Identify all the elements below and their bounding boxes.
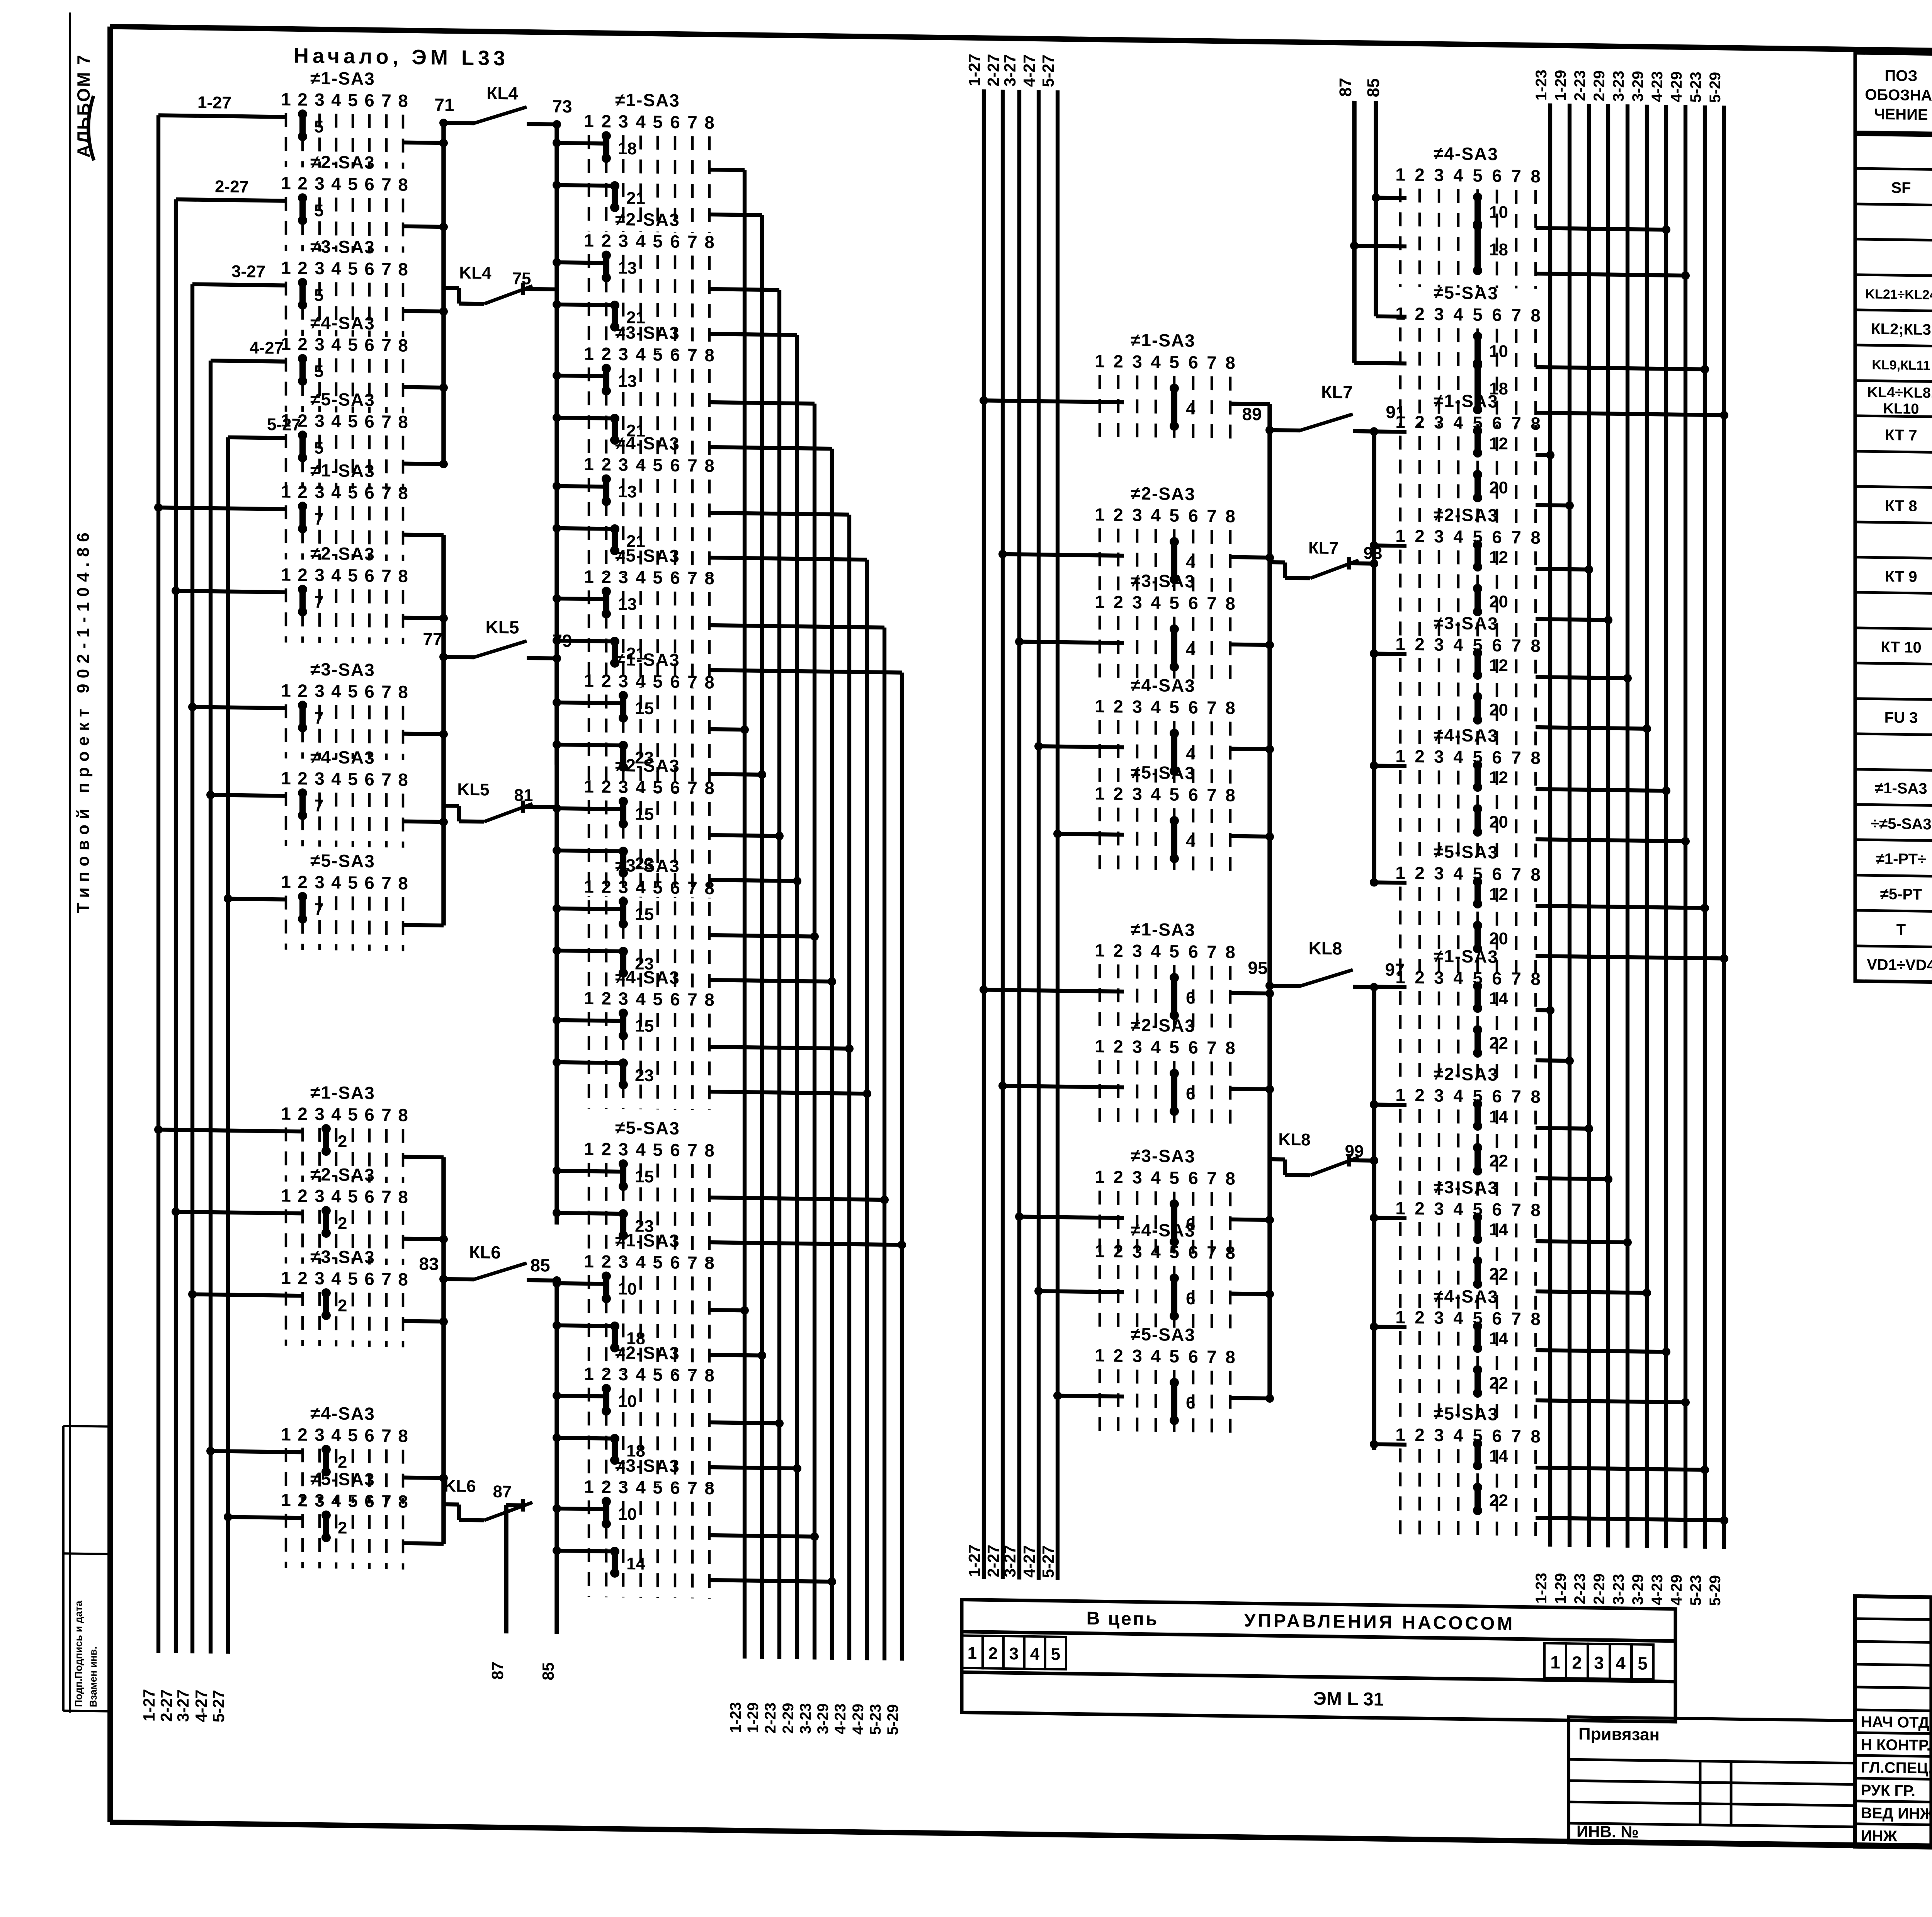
svg-text:3: 3 [618,1364,628,1384]
svg-text:4: 4 [636,231,646,251]
svg-text:3: 3 [315,681,325,701]
wire net 5-23 (left fan) [883,628,886,1660]
svg-text:8: 8 [398,1425,408,1446]
svg-text:8: 8 [1531,413,1541,434]
svg-text:1: 1 [281,1424,291,1444]
svg-text:FU 3: FU 3 [1884,709,1918,726]
svg-text:3: 3 [1434,747,1444,767]
svg-text:6: 6 [364,335,374,355]
svg-text:≠5-SA3: ≠5-SA3 [1434,842,1498,862]
svg-text:KL8: KL8 [1278,1130,1310,1149]
svg-text:3: 3 [1434,304,1444,324]
selector switch ≠5-SA3 [1395,282,1541,428]
svg-text:8: 8 [704,112,714,133]
svg-text:4: 4 [331,1425,341,1445]
svg-text:2: 2 [1415,412,1425,432]
svg-text:7: 7 [1511,1086,1521,1106]
svg-text:5: 5 [348,90,358,110]
svg-text:4-27: 4-27 [1020,54,1038,87]
svg-text:5: 5 [1169,1346,1179,1366]
svg-text:3: 3 [315,334,325,354]
svg-text:1: 1 [1095,1036,1105,1056]
selector switch ≠2-SA3 [1395,504,1541,640]
svg-text:8: 8 [704,1478,714,1498]
svg-text:≠1-SA3: ≠1-SA3 [615,1230,680,1251]
wire 85 vertical (top) [1374,101,1378,316]
svg-text:4: 4 [1151,352,1161,372]
svg-text:1: 1 [584,1476,594,1497]
svg-text:6: 6 [1492,747,1502,767]
wire net 4-23 (right fan) [1664,105,1668,1548]
svg-text:4: 4 [1453,747,1463,767]
svg-text:3: 3 [1132,505,1142,525]
svg-text:≠2-SA3: ≠2-SA3 [615,209,680,230]
svg-text:1: 1 [584,230,594,250]
svg-text:1: 1 [1095,940,1105,960]
svg-text:5: 5 [348,1186,358,1206]
svg-text:Взамен инв.: Взамен инв. [87,1647,99,1708]
svg-text:1: 1 [1395,967,1405,987]
svg-text:≠3-SA3: ≠3-SA3 [1131,570,1196,591]
wire feeder 1-27 middle [982,89,986,1579]
svg-text:6: 6 [1492,527,1502,547]
svg-text:7: 7 [1511,635,1521,655]
svg-text:8: 8 [398,412,408,432]
svg-text:1: 1 [1095,783,1105,803]
svg-text:12: 12 [1489,656,1508,675]
bus 91 vertical [1372,432,1376,884]
svg-text:6: 6 [670,1478,680,1498]
svg-text:2: 2 [601,670,611,691]
svg-text:4: 4 [1151,784,1161,804]
svg-text:1: 1 [584,454,594,474]
svg-text:≠2-SA3: ≠2-SA3 [615,755,680,776]
svg-text:KL10: KL10 [1883,401,1919,417]
selector switch ≠3-SA3 [281,659,408,760]
svg-text:7: 7 [1207,1347,1217,1367]
svg-text:1-27: 1-27 [965,54,983,87]
selector switch ≠3-SA3 [584,1455,714,1599]
selector switch ≠5-SA3 [1095,762,1235,881]
svg-text:5: 5 [314,439,323,458]
svg-text:7: 7 [687,878,697,898]
svg-text:≠4-SA3: ≠4-SA3 [310,313,375,333]
svg-text:3-27: 3-27 [174,1689,192,1722]
svg-text:1: 1 [281,481,291,502]
svg-text:3: 3 [1009,1644,1019,1663]
svg-text:≠1-SA3: ≠1-SA3 [1131,330,1196,350]
svg-text:87: 87 [488,1662,507,1680]
svg-text:≠1-SA3: ≠1-SA3 [310,460,375,481]
svg-text:5: 5 [1169,505,1179,526]
svg-text:2: 2 [1113,941,1123,961]
svg-text:8: 8 [1225,698,1235,718]
svg-text:3: 3 [618,567,628,587]
svg-text:7: 7 [1207,1038,1217,1058]
svg-text:6: 6 [1188,1037,1198,1057]
wire feeder 1-27 [156,115,160,1653]
svg-text:3: 3 [618,1477,628,1497]
svg-text:22: 22 [1489,1373,1508,1393]
svg-text:7: 7 [381,483,391,503]
svg-text:КL7: КL7 [1308,538,1338,558]
svg-text:7: 7 [314,796,323,815]
svg-text:3: 3 [618,777,628,797]
svg-text:2: 2 [298,258,308,278]
svg-text:1: 1 [584,1364,594,1384]
svg-text:5-23: 5-23 [1687,71,1704,103]
svg-text:КL2;КL3: КL2;КL3 [1871,320,1931,338]
svg-text:≠1-SA3: ≠1-SA3 [1875,780,1927,798]
wire 87 vertical (top) [1352,101,1357,363]
svg-text:4: 4 [1453,863,1463,883]
svg-text:5: 5 [653,671,663,691]
svg-text:2: 2 [298,680,308,701]
svg-text:≠1-РТ÷: ≠1-РТ÷ [1876,850,1926,868]
svg-text:3: 3 [1594,1653,1604,1673]
svg-text:2: 2 [1415,634,1425,654]
relay contact KL7.2 node 93 [1270,556,1374,579]
svg-text:4: 4 [636,567,646,587]
svg-text:6: 6 [364,411,374,431]
svg-text:1-23: 1-23 [727,1702,744,1733]
svg-text:6: 6 [1492,1426,1502,1446]
svg-text:КТ 8: КТ 8 [1885,497,1917,515]
svg-text:7: 7 [314,510,323,529]
svg-text:3-23: 3-23 [1610,70,1627,102]
svg-text:12: 12 [1489,548,1508,567]
svg-text:4: 4 [331,1268,341,1288]
svg-text:SF: SF [1891,179,1911,197]
svg-text:13: 13 [618,482,637,502]
svg-text:5-29: 5-29 [1707,1575,1724,1606]
svg-text:2: 2 [1572,1652,1582,1672]
svg-text:4: 4 [1453,412,1463,432]
svg-text:KL6: KL6 [444,1476,476,1496]
relay contact KL5 [444,640,557,658]
wire feeder 5-27 middle [1056,90,1060,1580]
svg-text:18: 18 [618,139,637,158]
title block [1855,1596,1932,1857]
svg-text:6: 6 [670,878,680,898]
svg-text:≠4-SA3: ≠4-SA3 [1434,725,1498,746]
svg-text:1: 1 [1395,526,1405,546]
selector switch ≠5-SA3 [1395,841,1541,977]
svg-text:7: 7 [381,412,391,432]
svg-text:8: 8 [1225,785,1235,805]
svg-text:1: 1 [281,565,291,585]
svg-text:5: 5 [653,877,663,897]
svg-text:≠2-SA3: ≠2-SA3 [310,1164,375,1185]
svg-text:≠5-SA3: ≠5-SA3 [615,1118,680,1138]
svg-text:15: 15 [635,1017,654,1036]
svg-text:7: 7 [381,1269,391,1289]
svg-text:3: 3 [1132,1345,1142,1366]
svg-text:6: 6 [364,90,374,110]
svg-text:1: 1 [1395,412,1405,432]
wire feeder 2-27 middle [1001,90,1005,1579]
svg-text:КL7: КL7 [1321,382,1353,402]
svg-text:2: 2 [601,1251,611,1271]
svg-text:6: 6 [364,482,374,502]
svg-text:7: 7 [1511,305,1521,325]
svg-text:7: 7 [687,1140,697,1160]
svg-text:1: 1 [968,1644,977,1663]
wire net 5-29 (right fan) [1722,105,1726,1549]
svg-text:15: 15 [635,805,654,824]
svg-text:1: 1 [584,344,594,364]
svg-text:7: 7 [1511,1426,1521,1446]
page frame bottom border [110,1822,1932,1856]
svg-text:4: 4 [1453,1199,1463,1219]
svg-text:15: 15 [635,905,654,924]
relay contact KL4.2 node 75 [444,282,557,305]
svg-text:2: 2 [1113,1241,1123,1261]
wire net 2-29 (left fan) [795,335,799,1659]
svg-text:3: 3 [618,877,628,897]
svg-text:5: 5 [653,1364,663,1385]
svg-text:2: 2 [601,776,611,796]
svg-text:5-27: 5-27 [267,415,301,434]
svg-text:5: 5 [1169,1242,1179,1262]
svg-text:6: 6 [1492,166,1502,186]
svg-text:6: 6 [1188,1346,1198,1366]
wire net 3-29 (right fan) [1645,105,1649,1548]
relay contact KL6.2 node 87 [444,1498,532,1521]
svg-text:77: 77 [423,629,442,649]
selector switch ≠2-SA3 [281,543,408,644]
svg-text:8: 8 [704,990,714,1010]
svg-text:7: 7 [1207,785,1217,805]
svg-text:1: 1 [1095,1167,1105,1187]
svg-text:≠5-SA3: ≠5-SA3 [1434,282,1498,303]
svg-text:2: 2 [601,1364,611,1384]
svg-text:3: 3 [315,1268,325,1288]
selector switch ≠4-SA3 [281,747,408,848]
svg-text:4: 4 [331,1186,341,1206]
svg-text:≠4-SA3: ≠4-SA3 [1434,1286,1498,1307]
svg-text:7: 7 [687,989,697,1009]
page frame left border [107,27,113,1822]
svg-text:5: 5 [1473,304,1483,325]
svg-text:5: 5 [653,1140,663,1160]
svg-text:2: 2 [298,872,308,892]
svg-text:3: 3 [1434,1085,1444,1106]
svg-text:6: 6 [670,777,680,798]
svg-text:7: 7 [381,1425,391,1446]
svg-text:3: 3 [1132,784,1142,804]
svg-text:2: 2 [1415,967,1425,987]
bus 97 vertical [1372,987,1376,1450]
svg-text:KL5: KL5 [457,780,489,799]
wire stubs bus73 to switches [557,143,606,144]
svg-text:87: 87 [1336,78,1355,97]
svg-text:8: 8 [704,456,714,476]
svg-text:≠5-SA3: ≠5-SA3 [1131,1324,1196,1345]
svg-text:2: 2 [1113,696,1123,716]
svg-text:6: 6 [364,873,374,893]
svg-text:20: 20 [1489,700,1508,720]
svg-text:4: 4 [1453,526,1463,546]
svg-text:3: 3 [315,1490,325,1510]
svg-text:8: 8 [1225,506,1235,526]
wire net 1-29 (left fan) [760,215,764,1659]
bus 71 [441,123,446,464]
svg-text:2: 2 [298,1104,308,1124]
svg-text:5: 5 [348,335,358,355]
selector switch ≠4-SA3 [281,312,408,413]
svg-text:6: 6 [1188,593,1198,613]
svg-text:3: 3 [315,769,325,789]
svg-text:1: 1 [281,1490,291,1510]
svg-text:8: 8 [398,769,408,789]
svg-text:5-27: 5-27 [1039,54,1057,87]
svg-text:3-27: 3-27 [1001,1545,1019,1578]
svg-text:≠4-SA3: ≠4-SA3 [1131,1220,1196,1240]
svg-text:Привязан: Привязан [1578,1724,1660,1744]
svg-text:KL4: KL4 [459,264,492,283]
svg-text:4: 4 [636,671,646,691]
svg-text:8: 8 [398,682,408,702]
wire net 1-29 (right fan) [1568,104,1571,1547]
svg-text:1: 1 [1095,351,1105,371]
box Привязан / ИНВ № [1569,1717,1855,1847]
wire feeder 3-27 [190,284,194,1653]
svg-text:3-23: 3-23 [797,1703,814,1734]
svg-text:6: 6 [1188,1168,1198,1188]
selector switch ≠4-SA3 [584,966,714,1110]
svg-text:2: 2 [298,768,308,788]
svg-text:4: 4 [1453,1308,1463,1328]
svg-text:6: 6 [364,769,374,789]
svg-text:2-27: 2-27 [215,177,249,196]
svg-text:7: 7 [1511,747,1521,767]
svg-text:6: 6 [1188,941,1198,961]
svg-text:2: 2 [1113,351,1123,371]
svg-text:8: 8 [704,672,714,692]
svg-text:4-29: 4-29 [850,1704,867,1735]
svg-text:2: 2 [338,1214,347,1233]
svg-text:3: 3 [315,173,325,194]
svg-text:5-29: 5-29 [1707,72,1724,103]
svg-text:7: 7 [1207,942,1217,962]
svg-text:6: 6 [1492,1199,1502,1220]
svg-text:ЭМ L 31: ЭМ L 31 [1313,1688,1384,1709]
svg-text:22: 22 [1489,1491,1508,1510]
svg-text:8: 8 [704,1365,714,1385]
svg-text:2: 2 [298,89,308,109]
svg-text:6: 6 [1186,1393,1195,1412]
svg-text:≠5-SA3: ≠5-SA3 [615,545,680,566]
svg-text:≠2-SA3: ≠2-SA3 [1434,505,1498,526]
svg-text:5-27: 5-27 [1039,1545,1057,1578]
svg-text:12: 12 [1489,768,1508,787]
svg-text:4: 4 [331,411,341,431]
selector switch ≠1-SA3 [584,89,714,233]
svg-text:3: 3 [1434,863,1444,883]
svg-text:≠2-SA3: ≠2-SA3 [1434,1064,1498,1085]
svg-text:5: 5 [1169,697,1179,717]
svg-text:4: 4 [1186,744,1196,763]
svg-text:1: 1 [584,566,594,587]
svg-text:7: 7 [1207,506,1217,526]
svg-text:3: 3 [1434,1199,1444,1219]
svg-text:7: 7 [381,259,391,279]
svg-text:7: 7 [687,672,697,692]
svg-text:6: 6 [1188,352,1198,372]
svg-text:5: 5 [1638,1653,1648,1673]
svg-text:КТ 9: КТ 9 [1885,568,1917,585]
svg-text:5: 5 [314,362,323,381]
svg-text:6: 6 [1186,988,1195,1007]
svg-text:8: 8 [1531,748,1541,768]
svg-text:≠3-SA3: ≠3-SA3 [615,322,680,343]
svg-text:3: 3 [618,1252,628,1272]
svg-text:2: 2 [601,111,611,131]
svg-text:20: 20 [1489,478,1508,497]
svg-text:2-27: 2-27 [984,1544,1002,1577]
svg-text:6: 6 [1492,1086,1502,1106]
svg-text:4: 4 [1151,941,1161,961]
svg-text:5: 5 [653,989,663,1009]
wire feeder 5-27 [226,437,230,1654]
selector switch ≠4-SA3 [1395,724,1541,861]
svg-text:5: 5 [348,174,358,194]
svg-text:2: 2 [1113,1345,1123,1366]
svg-text:5: 5 [653,455,663,475]
svg-text:4: 4 [1186,399,1196,418]
svg-text:2-29: 2-29 [780,1703,797,1734]
svg-text:4-27: 4-27 [250,338,284,357]
svg-text:2: 2 [1415,1085,1425,1105]
svg-text:3: 3 [1434,1425,1444,1445]
selector switch ≠3-SA3 [1095,570,1235,689]
svg-text:4: 4 [1151,1167,1161,1187]
svg-text:2: 2 [338,1296,347,1315]
svg-text:5-23: 5-23 [867,1704,884,1735]
svg-text:7: 7 [381,1491,391,1511]
svg-text:4: 4 [1030,1645,1040,1664]
svg-text:1: 1 [1395,303,1405,323]
svg-text:2: 2 [601,454,611,474]
svg-text:6: 6 [364,1104,374,1124]
svg-text:4-29: 4-29 [1668,1574,1685,1606]
selector switch ≠4-SA3 [1095,674,1235,793]
svg-text:≠2-SA3: ≠2-SA3 [615,1342,680,1363]
svg-text:≠4-SA3: ≠4-SA3 [310,1403,375,1424]
wire net 3-29 (left fan) [830,449,834,1660]
relay contact KL8.2 node 99 [1270,1153,1374,1176]
svg-text:10: 10 [1489,202,1508,222]
svg-text:1: 1 [281,1186,291,1206]
wire net 5-29 (left fan) [900,673,904,1661]
selector switch ≠1-SA3 [281,1082,408,1183]
svg-text:7: 7 [381,1105,391,1125]
wire net 5-23 (right fan) [1703,105,1707,1549]
svg-text:4: 4 [1186,640,1196,659]
wire net 2-29 (right fan) [1606,104,1610,1547]
svg-text:2: 2 [1415,863,1425,883]
svg-text:7: 7 [1511,968,1521,988]
svg-text:Н КОНТР.: Н КОНТР. [1861,1736,1931,1754]
svg-text:15: 15 [635,699,654,718]
svg-text:6: 6 [670,455,680,475]
svg-text:≠4-SA3: ≠4-SA3 [615,967,680,988]
svg-text:2: 2 [601,566,611,587]
svg-text:1-27: 1-27 [965,1544,983,1577]
svg-text:4: 4 [331,173,341,194]
svg-text:4: 4 [1453,634,1463,655]
